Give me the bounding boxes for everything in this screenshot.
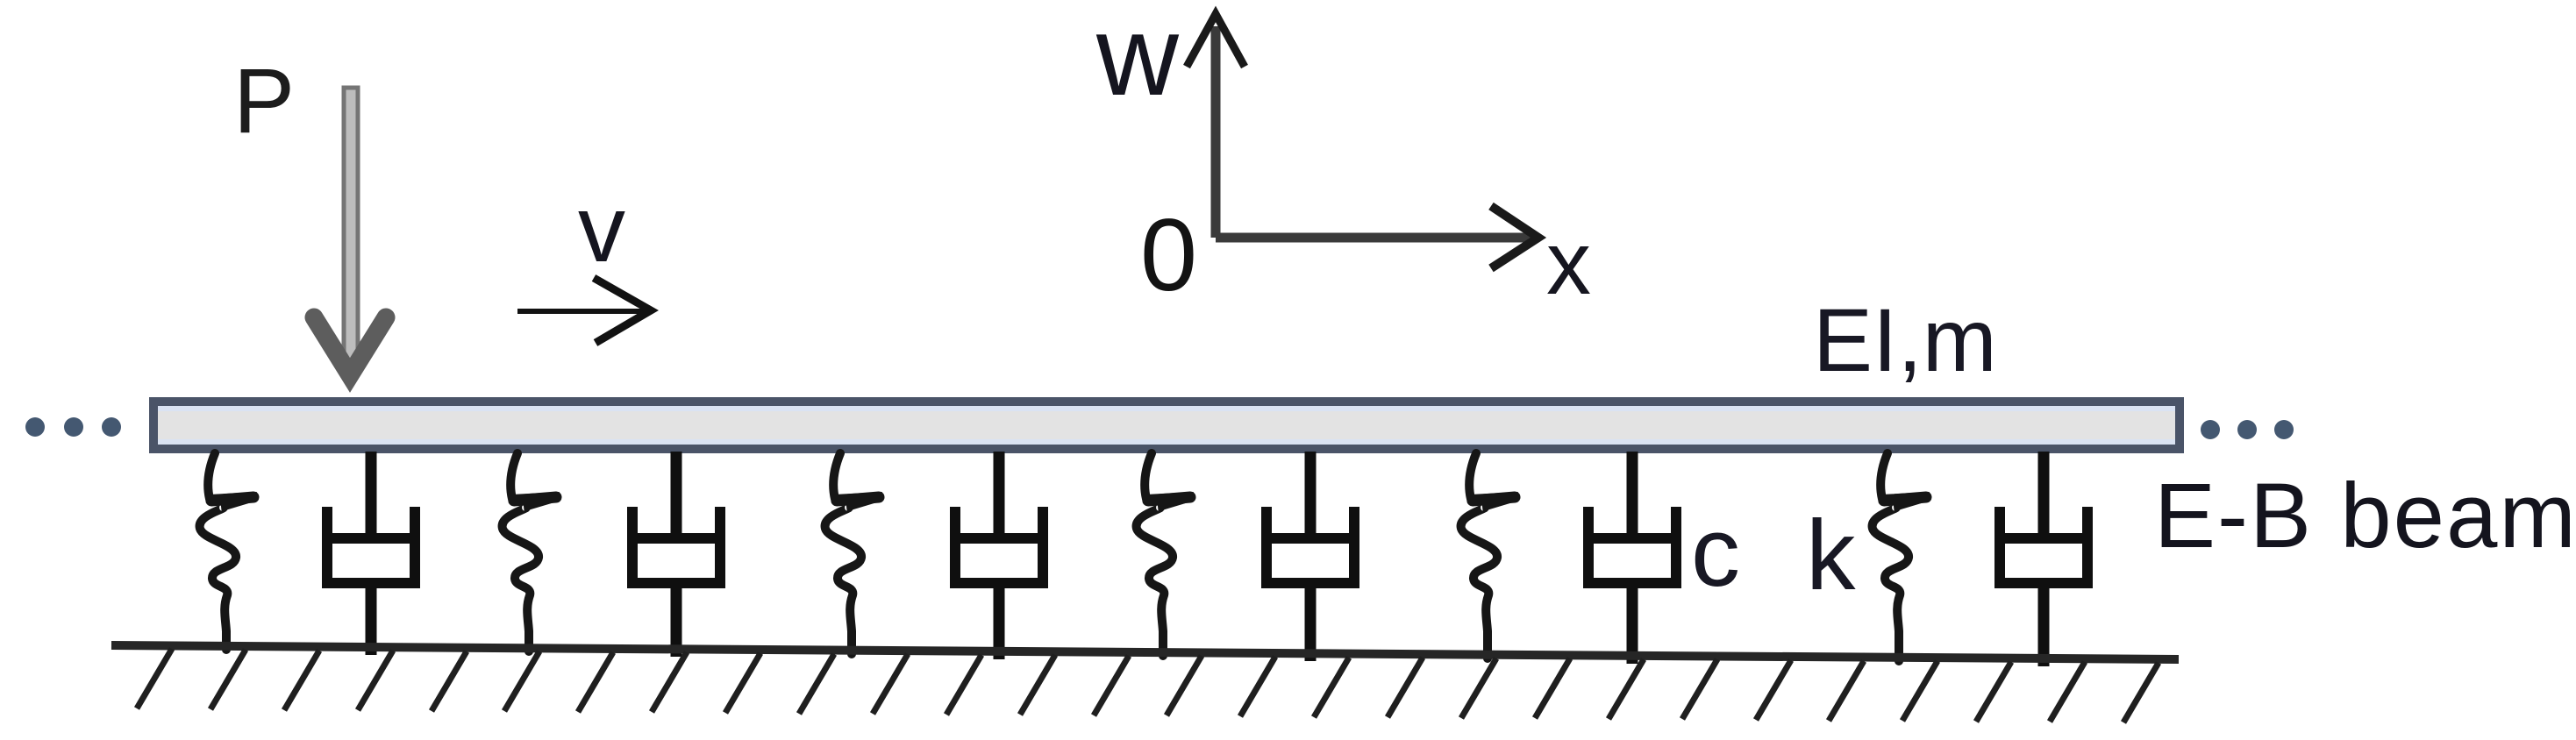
right continuation dots (2201, 420, 2294, 439)
svg-text:E-B beam: E-B beam (2154, 465, 2576, 567)
label c (1691, 497, 1740, 607)
label EI,m (1813, 290, 1997, 390)
label w (1095, 0, 1180, 119)
load arrow P (314, 88, 386, 375)
svg-text:0: 0 (1140, 197, 1197, 312)
label v (578, 175, 625, 281)
label P (233, 50, 295, 153)
axis w (vertical) (1187, 14, 1245, 238)
spring k4 (1137, 453, 1194, 656)
svg-text:c: c (1691, 497, 1740, 607)
axis x (horizontal) (1216, 206, 1538, 268)
damper c1 (322, 452, 420, 655)
svg-text:v: v (578, 175, 625, 281)
label k (1806, 500, 1856, 610)
svg-text:k: k (1806, 500, 1856, 610)
svg-text:EI,m: EI,m (1813, 290, 1997, 390)
damper c4 (1261, 452, 1359, 661)
beam (Euler-Bernoulli beam) (153, 402, 2180, 449)
ground hatching (137, 649, 2159, 722)
velocity arrow v (517, 278, 651, 343)
damper c3 (950, 452, 1048, 659)
spring k6 (1873, 453, 1930, 661)
damper c2 (627, 452, 725, 657)
label E-B beam (2154, 465, 2576, 567)
svg-text:w: w (1095, 0, 1180, 119)
left continuation dots (25, 417, 121, 437)
spring k5 (1461, 453, 1518, 658)
origin label 0 (1140, 197, 1197, 312)
damper c6 (1994, 452, 2093, 666)
spring k3 (825, 453, 882, 654)
ground line (111, 645, 2179, 659)
spring k2 (503, 453, 560, 651)
svg-text:P: P (233, 50, 295, 153)
spring k1 (200, 453, 257, 650)
svg-text:x: x (1546, 213, 1591, 313)
damper c5 (1583, 452, 1681, 664)
label x (1546, 213, 1591, 313)
